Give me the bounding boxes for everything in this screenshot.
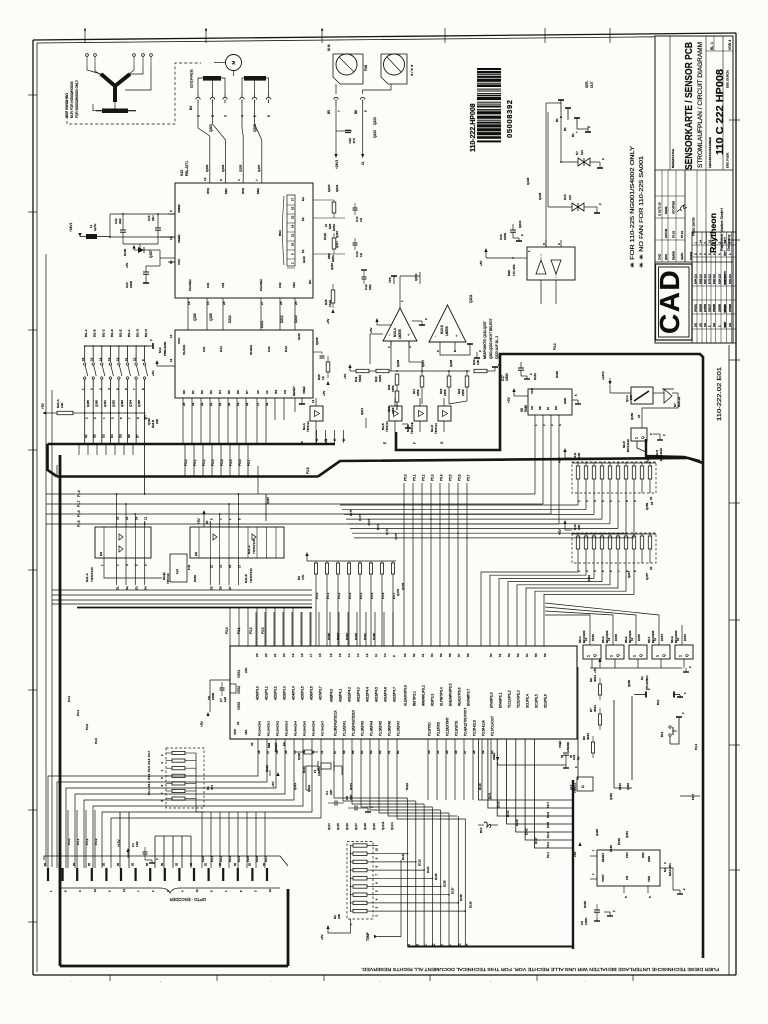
- svg-text:D152: D152: [618, 783, 622, 790]
- svg-text:12: 12: [203, 177, 207, 181]
- wire H6 long horizontals to P1: [238, 493, 535, 495]
- svg-text:215K: 215K: [416, 389, 420, 396]
- svg-text:14: 14: [291, 224, 295, 228]
- RN1 exit wires: [577, 493, 579, 505]
- wire driver right rails: [313, 217, 345, 219]
- wire chain drops: [396, 404, 398, 410]
- svg-text:46: 46: [275, 750, 279, 754]
- svg-text:EA: EA: [282, 742, 286, 746]
- svg-text:ALE/ADV/PS.0: ALE/ADV/PS.0: [404, 685, 408, 706]
- wire MCU top drops: [229, 612, 231, 646]
- svg-text:Q206: Q206: [193, 313, 197, 321]
- svg-text:D213: D213: [294, 315, 298, 323]
- svg-text:21: 21: [218, 402, 222, 406]
- svg-text:M28: M28: [507, 270, 511, 276]
- svg-text:14: 14: [169, 358, 173, 362]
- svg-text:4K64: 4K64: [586, 733, 590, 740]
- curly brace opto: [60, 888, 280, 893]
- svg-text:Q1210: Q1210: [381, 821, 385, 830]
- svg-text:D132: D132: [401, 853, 405, 860]
- svg-text:+5V: +5V: [125, 263, 129, 268]
- svg-text:+5V: +5V: [326, 319, 330, 324]
- svg-text:2: 2: [520, 234, 524, 236]
- fan unit 1: [333, 54, 363, 84]
- svg-text:7: 7: [575, 131, 579, 133]
- svg-text:UL: UL: [361, 161, 365, 165]
- svg-text:AD4/P3.4: AD4/P3.4: [292, 686, 296, 700]
- svg-text:P2.4: P2.4: [546, 832, 550, 838]
- svg-text:D139: D139: [468, 901, 472, 908]
- svg-text:13: 13: [356, 653, 360, 657]
- svg-text:P2.6/HLDA: P2.6/HLDA: [482, 719, 486, 736]
- svg-text:100N: 100N: [129, 281, 133, 288]
- svg-text:20: 20: [205, 520, 209, 524]
- svg-text:P3.2: P3.2: [67, 696, 71, 702]
- svg-text:TP6: TP6: [388, 277, 392, 283]
- svg-text:C: C: [704, 253, 707, 255]
- svg-text:2: 2: [253, 115, 257, 117]
- svg-text:4: 4: [241, 115, 245, 117]
- connector B2 pins: [47, 868, 49, 881]
- svg-text:Q200: Q200: [627, 679, 631, 687]
- svg-text:P5.4: P5.4: [440, 474, 444, 481]
- svg-text:1K: 1K: [321, 376, 325, 380]
- wire opamp feedback rail: [370, 333, 383, 335]
- power -5V MAX: [578, 842, 581, 846]
- IC2 bottom pins wires: [182, 398, 184, 443]
- power +5V R25: [331, 309, 334, 313]
- svg-text:+5V: +5V: [343, 374, 347, 379]
- svg-text:16: 16: [329, 653, 333, 657]
- svg-text:P2.7: P2.7: [546, 802, 550, 808]
- svg-text:BL. 1: BL. 1: [710, 42, 714, 50]
- svg-text:15: 15: [206, 301, 210, 305]
- svg-text:B1: B1: [563, 127, 567, 131]
- svg-text:11: 11: [124, 358, 128, 361]
- svg-text:P1.6/EPA6: P1.6/EPA6: [388, 721, 392, 736]
- R1 resistors: [172, 751, 185, 754]
- wire chain to R23: [389, 370, 470, 372]
- ground C18: [513, 237, 519, 239]
- N21-B top pin numbers: [209, 521, 211, 527]
- svg-text:P5.2: P5.2: [202, 459, 206, 466]
- svg-text:BI1-A: BI1-A: [84, 328, 88, 337]
- resistor R20 1K: [332, 202, 336, 213]
- svg-text:P0.0/ACH0: P0.0/ACH0: [258, 721, 262, 736]
- svg-text:VOUT: VOUT: [601, 874, 605, 882]
- svg-text:A010/P4.2: A010/P4.2: [348, 687, 352, 702]
- svg-text:PHASE2: PHASE2: [259, 279, 263, 291]
- svg-text:Q2Ω1: Q2Ω1: [469, 294, 473, 303]
- svg-text:P0.7/ACH7: P0.7/ACH7: [321, 721, 325, 736]
- svg-text:87C196KC: 87C196KC: [645, 674, 649, 690]
- svg-text:D173: D173: [367, 518, 371, 525]
- svg-text:STOFFER: STOFFER: [672, 201, 676, 214]
- svg-text:F: F: [413, 442, 417, 444]
- wire B6 down: [362, 103, 364, 154]
- wire P5 drops: [184, 444, 186, 477]
- wire D bus verticals: [403, 483, 405, 646]
- svg-text:K1: K1: [301, 249, 305, 253]
- svg-text:74HCT240: 74HCT240: [249, 568, 253, 583]
- svg-text:6358.110: 6358.110: [700, 274, 703, 284]
- wire D bus horizontals: [340, 504, 578, 506]
- svg-text:EN: EN: [194, 552, 198, 556]
- svg-text:215K: 215K: [391, 407, 395, 414]
- svg-text:P5.6: P5.6: [458, 474, 462, 481]
- svg-text:259098: 259098: [713, 303, 716, 312]
- svg-text:110-222.HP008: 110-222.HP008: [470, 103, 477, 152]
- svg-text:Q120: Q120: [297, 752, 301, 760]
- wire riser to bus: [144, 493, 146, 495]
- svg-text:D121: D121: [349, 783, 353, 790]
- ground zener1: [599, 162, 601, 168]
- svg-text:Q: Q: [639, 654, 643, 657]
- ground B14: [670, 717, 679, 744]
- svg-text:22: 22: [169, 260, 173, 264]
- svg-text:P3.4: P3.4: [237, 856, 241, 862]
- svg-text:Q: Q: [616, 654, 620, 657]
- svg-text:+5V: +5V: [151, 370, 155, 376]
- svg-text:P3.2: P3.2: [249, 627, 253, 634]
- svg-text:9: 9: [392, 655, 396, 657]
- svg-text:VDD: VDD: [647, 876, 651, 882]
- svg-text:Q185: Q185: [86, 400, 90, 407]
- barcode: [477, 68, 501, 142]
- svg-text:D181: D181: [363, 633, 367, 640]
- svg-text:B4: B4: [189, 106, 193, 110]
- svg-text:+5V: +5V: [197, 517, 201, 524]
- wire serout stub3: [576, 118, 578, 126]
- power +24V1 left: [78, 233, 81, 237]
- svg-text:Q221: Q221: [335, 184, 339, 192]
- power +24V1 fan: [334, 154, 337, 158]
- wire H6 bundle down: [238, 421, 535, 494]
- wire vmm rail: [110, 213, 175, 215]
- svg-text:16: 16: [291, 206, 295, 210]
- svg-text:N7: N7: [575, 151, 579, 155]
- svg-text:250698: 250698: [729, 303, 732, 312]
- svg-text:P4.5: P4.5: [370, 592, 374, 599]
- flipflop row ground rail: [590, 667, 682, 669]
- svg-text:SCL/PE.4: SCL/PE.4: [526, 694, 530, 708]
- svg-text:Q194: Q194: [129, 400, 133, 407]
- wires R2 staircase verticals: [407, 798, 409, 941]
- power +5V opamp: [375, 318, 378, 322]
- svg-text:63: 63: [403, 653, 407, 657]
- svg-text:6327.110: 6327.110: [704, 274, 707, 284]
- svg-text:D212: D212: [280, 315, 284, 323]
- svg-text:D160: D160: [555, 371, 559, 378]
- flipflop row N8-C to N8-G: [583, 645, 601, 659]
- svg-text:13: 13: [607, 637, 611, 641]
- wire P2.7 stub: [680, 795, 700, 797]
- svg-text:P3.7: P3.7: [264, 856, 268, 862]
- MCU pin stubs bottom P2: [427, 739, 429, 800]
- svg-text:C02: C02: [278, 282, 282, 288]
- svg-text:A013/P4.5: A013/P4.5: [375, 687, 379, 702]
- svg-text:Raytheon Marine GmbH: Raytheon Marine GmbH: [719, 208, 724, 251]
- svg-text:+5V: +5V: [320, 934, 324, 940]
- svg-text:12: 12: [144, 516, 148, 520]
- svg-text:P3.0: P3.0: [94, 738, 98, 744]
- svg-text:P3.1: P3.1: [147, 789, 151, 795]
- flipflop N8-B MC14130: [631, 428, 647, 441]
- svg-text:P4.3: P4.3: [348, 592, 352, 599]
- svg-text:10K: 10K: [577, 453, 581, 458]
- svg-text:S/G: S/G: [704, 323, 707, 327]
- svg-text:41: 41: [320, 750, 324, 754]
- wire C23 ground: [145, 280, 147, 283]
- IC N21-B 74HCT240: [190, 527, 284, 558]
- svg-text:11: 11: [653, 638, 657, 641]
- power +5V buffers: [202, 510, 205, 514]
- svg-text:17: 17: [291, 197, 295, 201]
- bus thick left vertical: [59, 455, 62, 966]
- svg-text:GND: GND: [563, 398, 567, 404]
- svg-text:BLATT: BLATT: [724, 236, 727, 243]
- svg-text:Q234: Q234: [518, 220, 522, 228]
- svg-text:P3.6: P3.6: [85, 724, 89, 730]
- svg-text:Q203: Q203: [209, 124, 213, 132]
- svg-text:READY/PS.6: READY/PS.6: [458, 687, 462, 706]
- svg-text:FAN: FAN: [364, 64, 368, 71]
- svg-text:VCC: VCC: [177, 337, 181, 344]
- svg-text:P2.3/1RTE: P2.3/1RTE: [455, 721, 459, 736]
- IC N1 87C196KC body: [230, 646, 577, 739]
- svg-text:BENENNUNG: BENENNUNG: [671, 148, 675, 168]
- svg-text:22U: 22U: [151, 215, 155, 221]
- svg-text:Q157: Q157: [149, 250, 153, 258]
- svg-text:STROMLAUFPLAN / CIRCUIT DIAGRA: STROMLAUFPLAN / CIRCUIT DIAGRAMM: [697, 42, 704, 168]
- svg-text:A09/P4.1: A09/P4.1: [339, 689, 343, 702]
- svg-text:P3.6: P3.6: [147, 758, 151, 764]
- svg-text:P2.0/TXD: P2.0/TXD: [428, 722, 432, 736]
- svg-text:55: 55: [351, 750, 355, 754]
- wire right column verticals: [613, 700, 615, 788]
- gate N3-B 74HC14: [389, 406, 402, 421]
- svg-text:D187: D187: [266, 497, 270, 504]
- capacitor C13 1N: [353, 242, 358, 244]
- svg-text:58: 58: [448, 653, 452, 657]
- ground serout: [587, 126, 589, 132]
- svg-text:PBL-3271: PBL-3271: [185, 161, 189, 176]
- svg-text:6164.110: 6164.110: [719, 274, 722, 284]
- power +5V N14: [155, 360, 158, 364]
- svg-text:100N: 100N: [211, 693, 215, 700]
- svg-text:CAD: CAD: [654, 269, 685, 334]
- svg-text:Q214: Q214: [360, 407, 364, 415]
- svg-text:VCC: VCC: [530, 388, 534, 394]
- wire left risers: [56, 465, 58, 477]
- svg-text:D180: D180: [372, 633, 376, 640]
- frame zone ticks left: [28, 94, 37, 96]
- wire crystal loop: [306, 766, 310, 790]
- wire stepper to driver 2: [242, 103, 243, 183]
- resistor R16 215K stack: [395, 374, 399, 385]
- svg-text:B: B: [324, 439, 328, 441]
- svg-text:Q121: Q121: [293, 782, 297, 790]
- wire left caps rail: [210, 679, 230, 681]
- svg-text:N2: N2: [663, 868, 667, 872]
- svg-text:P5.1: P5.1: [413, 474, 417, 481]
- svg-text:P1.5/EPA5: P1.5/EPA5: [379, 721, 383, 736]
- svg-text:Q128: Q128: [363, 823, 367, 830]
- svg-text:15: 15: [228, 564, 232, 568]
- svg-text:21: 21: [273, 653, 277, 657]
- gate N3-C 74HC14: [414, 406, 427, 421]
- svg-text:Q236: Q236: [526, 177, 530, 185]
- svg-text:W42: W42: [241, 188, 245, 195]
- svg-text:S5: S5: [209, 586, 213, 590]
- svg-text:P4.2: P4.2: [337, 592, 341, 599]
- svg-text:28: 28: [222, 301, 226, 305]
- svg-text:Q122: Q122: [307, 784, 311, 792]
- svg-text:M M: M M: [327, 44, 331, 51]
- svg-text:Q191: Q191: [103, 400, 107, 407]
- svg-text:BI1-E: BI1-E: [118, 329, 122, 337]
- svg-text:D3: D3: [209, 390, 213, 394]
- CAD logo box: [656, 264, 693, 340]
- svg-text:22P: 22P: [349, 795, 353, 800]
- IC N15 PBL-3717 body: [175, 183, 313, 298]
- svg-text:LM358: LM358: [398, 329, 402, 339]
- svg-text:D133: D133: [418, 859, 422, 866]
- jumper B13: [634, 694, 646, 696]
- svg-text:26: 26: [279, 301, 283, 305]
- svg-text:N19-B: N19-B: [440, 325, 444, 334]
- power +5V H6: [512, 388, 515, 392]
- svg-text:Q1211: Q1211: [390, 821, 394, 830]
- op-amp N19-A LM358: [383, 308, 417, 341]
- svg-text:18: 18: [116, 516, 120, 520]
- svg-text:Q228: Q228: [315, 337, 319, 345]
- svg-text:74HCT240: 74HCT240: [252, 539, 256, 554]
- svg-text:D211: D211: [260, 320, 264, 328]
- svg-text:FOR NG002/NG003 ONLY: FOR NG002/NG003 ONLY: [75, 79, 79, 118]
- MAX pins: [590, 855, 597, 857]
- wire synchro to resistor: [114, 102, 116, 111]
- wire opamp inputs down: [390, 341, 392, 371]
- svg-text:WR/WRL/PS.2: WR/WRL/PS.2: [422, 685, 426, 706]
- svg-text:P3.3: P3.3: [147, 773, 151, 779]
- svg-text:D171: D171: [385, 528, 389, 535]
- svg-text:6: 6: [267, 115, 271, 117]
- svg-text:S/G: S/G: [713, 323, 716, 327]
- relay Q1-A 24K: [631, 387, 653, 404]
- resistor R17 215K: [420, 376, 424, 387]
- svg-text:P3.3: P3.3: [228, 856, 232, 862]
- svg-text:T1D1R/PE.3: T1D1R/PE.3: [517, 690, 521, 708]
- svg-text:P3.6: P3.6: [255, 856, 259, 862]
- svg-text:Q159: Q159: [645, 502, 649, 510]
- svg-text:5046: 5046: [524, 405, 528, 412]
- svg-text:AD3/P3.3: AD3/P3.3: [283, 686, 287, 700]
- capacitor C12 2N2: [362, 276, 367, 278]
- svg-text:47: 47: [266, 750, 270, 754]
- revision table: [692, 232, 736, 343]
- svg-text:259098: 259098: [719, 303, 722, 312]
- resistor network R1 dashed box: [166, 748, 204, 808]
- wire P1 row horizontals: [95, 493, 238, 495]
- svg-text:Q226: Q226: [396, 359, 400, 367]
- svg-text:05008392: 05008392: [505, 99, 514, 138]
- svg-text:Q223: Q223: [373, 117, 377, 125]
- svg-text:+5V: +5V: [271, 781, 275, 787]
- svg-text:74HC14: 74HC14: [434, 423, 438, 434]
- resistor R22 6K81: [376, 369, 389, 372]
- MCU pin stubs top: [255, 612, 257, 646]
- svg-text:Q224: Q224: [414, 273, 418, 281]
- svg-text:13: 13: [107, 357, 111, 361]
- svg-text:P1.4/EPA4: P1.4/EPA4: [370, 721, 374, 736]
- svg-text:D160: D160: [591, 634, 595, 641]
- svg-text:NAME: NAME: [724, 321, 727, 328]
- RN2 resistors: [576, 536, 579, 549]
- svg-text:MC14130: MC14130: [659, 448, 663, 461]
- svg-text:2: 2: [424, 318, 428, 320]
- svg-text:16: 16: [318, 653, 322, 657]
- svg-text:P3.1: P3.1: [210, 856, 214, 862]
- svg-text:33: 33: [427, 750, 431, 754]
- gate N3-A 74HC14: [310, 406, 323, 421]
- frame zone ticks top: [84, 28, 86, 43]
- svg-text:54: 54: [360, 750, 364, 754]
- resistor R18 215K: [447, 376, 451, 387]
- ground top rail: [150, 345, 153, 347]
- svg-text:P5.2: P5.2: [422, 474, 426, 481]
- power +5V mcu left: [206, 712, 209, 716]
- svg-text:3Ω3: 3Ω3: [118, 218, 122, 224]
- svg-text:Q201,Q202 NICHT BELEGT: Q201,Q202 NICHT BELEGT: [489, 318, 493, 359]
- opamp1 output wire: [399, 276, 401, 308]
- svg-text:✳ FOR 110-225 NG001/S4002 ONL: ✳ FOR 110-225 NG001/S4002 ONLY: [630, 145, 636, 268]
- svg-text:P5.5: P5.5: [229, 459, 233, 466]
- svg-text:E: E: [383, 442, 387, 444]
- IC N2 MAX-694 body: [597, 850, 660, 886]
- svg-text:6: 6: [436, 350, 440, 352]
- opamp2 out ground: [469, 344, 471, 348]
- title signature: [677, 205, 687, 212]
- svg-text:NUR FOR NG002/NG003: NUR FOR NG002/NG003: [70, 81, 74, 118]
- wire dashed synchro boundary: [67, 95, 136, 124]
- svg-text:1N: 1N: [359, 253, 363, 257]
- svg-text:Q152: Q152: [609, 793, 613, 800]
- zener N15 11V: [572, 203, 584, 211]
- svg-text:D182: D182: [354, 633, 358, 640]
- svg-text:22: 22: [209, 402, 213, 406]
- svg-text:NAME: NAME: [664, 206, 668, 214]
- svg-text:VREF: VREF: [302, 386, 306, 394]
- svg-text:18: 18: [650, 501, 654, 505]
- svg-text:17: 17: [237, 564, 241, 568]
- svg-text:10K: 10K: [60, 403, 64, 408]
- svg-text:P3.5: P3.5: [147, 766, 151, 772]
- svg-text:AD6/P3.6: AD6/P3.6: [310, 686, 314, 700]
- svg-text:P4.3: P4.3: [94, 838, 98, 845]
- svg-text:CS: CS: [283, 390, 287, 394]
- resistor synchro scale: [102, 109, 128, 114]
- RN2 exit wires: [481, 563, 578, 646]
- svg-text:16: 16: [125, 516, 129, 520]
- wire serout stub2: [567, 108, 569, 120]
- svg-text:1P1: 1P1: [143, 415, 147, 420]
- svg-text:D150: D150: [583, 901, 587, 908]
- svg-text:12: 12: [115, 357, 119, 361]
- svg-text:S4: S4: [144, 586, 148, 590]
- svg-text:S1GN2: S1GN2: [249, 345, 253, 355]
- bus thick right vertical bottom: [287, 889, 290, 966]
